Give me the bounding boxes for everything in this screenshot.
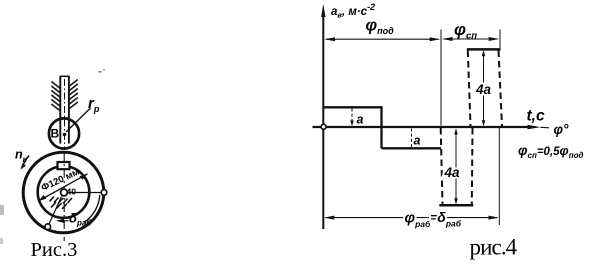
upper 4a rect right dashed edge bbox=[499, 51, 503, 127]
speck noise top right bbox=[99, 71, 102, 73]
ground hatching under pivot bbox=[50, 197, 73, 210]
radius line to bottom-left node bbox=[49, 197, 62, 225]
guide hatching left bbox=[51, 82, 59, 111]
small rectangle at top of base circle bbox=[58, 162, 70, 169]
dimension tick a (second) bbox=[411, 129, 413, 148]
horizontal axis t bbox=[313, 126, 530, 128]
origin open circle bbox=[321, 124, 326, 129]
step down edge bbox=[380, 106, 382, 148]
svg-text:а: а bbox=[414, 134, 421, 148]
roller B circle bbox=[49, 118, 79, 148]
follower stem left line bbox=[59, 77, 61, 144]
radius line to right node bbox=[66, 192, 101, 194]
phi_sp dimension line bbox=[444, 38, 498, 40]
svg-text:40: 40 bbox=[67, 187, 77, 197]
guide hatching right bbox=[69, 80, 77, 109]
upper 4a rect top line bbox=[467, 48, 501, 51]
svg-text:φсп: φсп bbox=[454, 20, 477, 42]
dimension tick a (first) bbox=[351, 109, 353, 125]
svg-text:t,c: t,c bbox=[527, 108, 545, 125]
roller center dot bbox=[63, 133, 67, 137]
lower 4a rect left dashed edge bbox=[441, 128, 443, 204]
cam pivot circle bbox=[61, 189, 68, 196]
phi_pod dimension line bbox=[326, 38, 439, 40]
edge smudges bbox=[0, 205, 4, 215]
svg-text:rр: rр bbox=[88, 95, 100, 114]
svg-text:4а: 4а bbox=[475, 82, 492, 97]
diameter dimension line Ф120 bbox=[39, 174, 88, 201]
cam outer circle bbox=[23, 152, 104, 233]
cam inner circle (base circle) bbox=[38, 166, 90, 218]
lower 4a dimension line with arrows bbox=[455, 130, 457, 203]
svg-text:φ°: φ° bbox=[554, 122, 569, 137]
leader line for roller radius bbox=[66, 108, 91, 132]
svg-text:а: а bbox=[357, 113, 364, 127]
rotation direction arrow bbox=[22, 156, 29, 167]
stem dash-dot centerline bbox=[64, 79, 66, 150]
right node circle bbox=[101, 190, 107, 196]
working angle arc bbox=[84, 195, 100, 223]
step -a bottom line bbox=[382, 147, 442, 149]
step +a top line bbox=[323, 106, 382, 108]
extension line between phi_pod and phi_sp bbox=[440, 30, 442, 126]
lower 4a rect right dashed edge bbox=[471, 128, 474, 204]
bottom dimension line phi_rab bbox=[326, 217, 498, 219]
svg-text:φраб=δраб: φраб=δраб bbox=[405, 209, 462, 229]
vertical centerline through cam bbox=[63, 152, 65, 241]
follower stem right line bbox=[68, 77, 70, 144]
svg-text:φпод: φпод bbox=[366, 17, 395, 37]
stem top cap bbox=[60, 75, 70, 77]
extension line right upper bbox=[499, 30, 501, 50]
leader arrow for delta rab bbox=[58, 220, 69, 222]
svg-text:δраб: δраб bbox=[69, 211, 92, 228]
extension line right lower bbox=[498, 128, 500, 225]
svg-text:В: В bbox=[51, 127, 60, 141]
svg-text:Рис.3: Рис.3 bbox=[31, 239, 78, 261]
upper 4a rect left dashed edge bbox=[468, 51, 471, 127]
vertical axis a_B bbox=[322, 13, 324, 229]
upper 4a dimension line with arrows bbox=[483, 52, 485, 126]
svg-text:рис.4: рис.4 bbox=[470, 235, 518, 260]
svg-text:φсп=0,5φпод: φсп=0,5φпод bbox=[518, 143, 583, 160]
lower 4a rect bottom line bbox=[439, 204, 473, 207]
svg-text:4а: 4а bbox=[444, 165, 461, 180]
bottom-left node circle bbox=[45, 224, 51, 230]
